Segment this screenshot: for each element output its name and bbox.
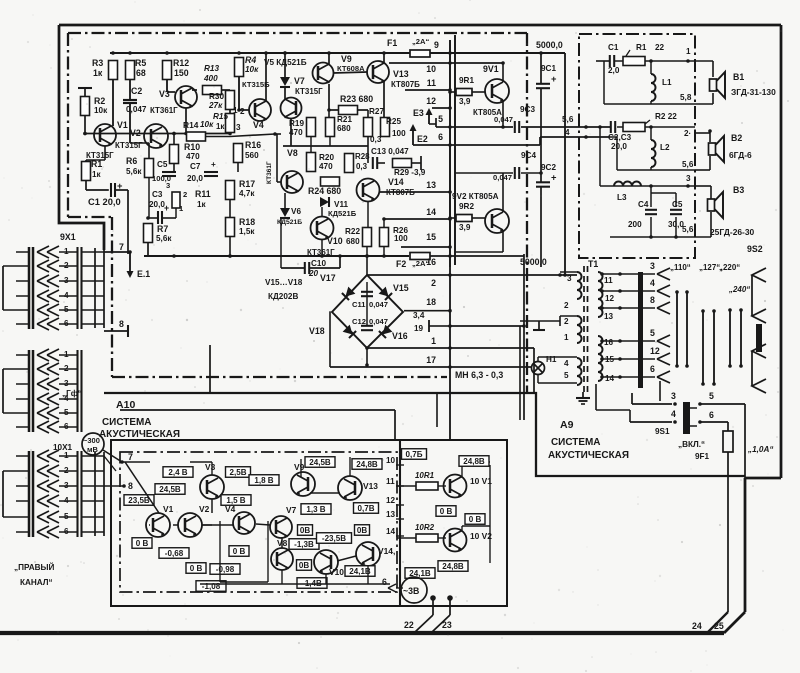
node 22 pin dot <box>430 595 436 601</box>
svg-text:5,8: 5,8 <box>680 93 692 102</box>
svg-text:Т1: Т1 <box>588 259 598 269</box>
svg-text:-0,68: -0,68 <box>165 549 184 558</box>
svg-text:14: 14 <box>386 527 396 536</box>
svg-text:1к: 1к <box>197 200 207 209</box>
svg-text:2: 2 <box>240 107 245 116</box>
wire V4 collector up <box>265 53 267 101</box>
svg-text:В2: В2 <box>731 133 742 143</box>
svg-text:С5: С5 <box>157 160 168 169</box>
resistor R15 <box>229 110 231 114</box>
T1 secondary upper <box>598 272 603 317</box>
svg-text:13: 13 <box>386 510 396 519</box>
node 23 pin dot <box>447 595 453 601</box>
svg-text:В3: В3 <box>733 185 744 195</box>
T1 core dashed <box>583 266 585 392</box>
svg-text:20,0: 20,0 <box>187 174 203 183</box>
svg-text:15: 15 <box>426 232 436 242</box>
svg-text:1: 1 <box>564 333 569 342</box>
svg-text:5,6к: 5,6к <box>126 167 142 176</box>
transistor A10 V14 <box>356 542 380 566</box>
svg-text:10X1: 10X1 <box>53 443 73 452</box>
wire R18 bottom <box>229 237 231 257</box>
svg-text:24,8В: 24,8В <box>463 457 485 466</box>
wire C2 bottom <box>129 103 131 143</box>
wire L2 bottom <box>650 167 652 170</box>
svg-text:23,5В: 23,5В <box>128 496 150 505</box>
voltage box 23,5В at 139 <box>124 495 154 506</box>
transistor V4 <box>249 99 271 121</box>
capacitor 9C4 <box>514 167 516 179</box>
voltage box -23,5В at 334 <box>317 533 352 544</box>
svg-text:5000,0: 5000,0 <box>536 40 563 50</box>
millivolt source circle <box>82 433 104 455</box>
svg-text:3: 3 <box>671 391 676 401</box>
resistor R18 <box>226 218 235 237</box>
wire gap horizontal <box>120 409 395 411</box>
wire x210 down <box>209 345 211 393</box>
wire R6 top <box>148 143 150 159</box>
wire bridge top <box>366 256 368 275</box>
diode V6 <box>280 208 290 217</box>
capacitor C3 symbol <box>157 211 159 224</box>
svg-text:10к: 10к <box>245 65 259 74</box>
voltage box -0,68 at 174 <box>159 548 189 559</box>
wire R12 to V3 <box>166 80 168 93</box>
svg-text:V15: V15 <box>393 283 409 293</box>
svg-text:12: 12 <box>650 346 660 356</box>
wire 10R2 <box>397 537 416 539</box>
svg-text:V16: V16 <box>392 331 408 341</box>
transistor V9 <box>313 63 334 84</box>
fuse F2 <box>410 253 430 260</box>
wire V3 collector <box>185 108 187 134</box>
resistor R4 <box>235 58 244 77</box>
svg-text:12: 12 <box>605 294 615 303</box>
main board dash-dot step v <box>111 217 113 377</box>
voltage box 24,8V r2 <box>438 561 468 572</box>
wire 9V2 emitter <box>502 173 504 212</box>
wire R2 bottom <box>84 116 86 134</box>
wire V10 bottom <box>321 240 323 257</box>
svg-text:„220“: „220“ <box>719 263 740 272</box>
selector jumper 110b <box>686 292 688 366</box>
resistor R16 <box>234 144 243 163</box>
svg-text:100: 100 <box>392 129 406 138</box>
svg-text:R25: R25 <box>386 117 401 126</box>
svg-text:9С2: 9С2 <box>541 163 556 172</box>
capacitor C4 <box>650 186 652 207</box>
svg-text:C2: C2 <box>131 86 142 96</box>
svg-text:V7: V7 <box>294 76 305 86</box>
wire C10 up <box>309 267 340 269</box>
wire R13 right <box>221 89 230 91</box>
svg-text:0,3: 0,3 <box>356 162 368 171</box>
wire row 13 <box>380 191 450 193</box>
svg-text:9: 9 <box>434 40 439 50</box>
wire row 17 right <box>450 366 531 368</box>
wire row 15 <box>401 246 450 248</box>
svg-text:L3: L3 <box>617 193 627 202</box>
svg-text:9V1: 9V1 <box>483 64 499 74</box>
svg-text:1к: 1к <box>92 170 102 179</box>
selector jumper 110a <box>676 292 678 366</box>
wire L1 bottom <box>650 101 652 104</box>
svg-text:6: 6 <box>438 132 443 142</box>
wire top bus right <box>450 52 565 54</box>
wire R17-R18 <box>229 200 231 218</box>
svg-text:С3: С3 <box>152 190 163 199</box>
transistor 10V2 <box>444 529 467 552</box>
antenna bar R2 <box>78 87 92 89</box>
svg-text:V9: V9 <box>341 54 352 64</box>
svg-text:200: 200 <box>628 220 642 229</box>
svg-text:4: 4 <box>671 409 676 419</box>
wire F2 right <box>430 255 450 257</box>
svg-text:10: 10 <box>386 456 396 465</box>
svg-text:2: 2 <box>564 301 569 310</box>
svg-text:V2: V2 <box>199 504 210 514</box>
junction V5 top <box>283 51 287 55</box>
switch 9S1 contact 6 <box>698 420 702 424</box>
wire pin6 to fuse <box>700 421 728 423</box>
svg-text:2: 2 <box>431 278 436 288</box>
svg-text:МН 6,3 - 0,3: МН 6,3 - 0,3 <box>455 370 503 380</box>
svg-text:АКУСТИЧЕСКАЯ: АКУСТИЧЕСКАЯ <box>548 450 629 461</box>
wire bridge mid <box>366 282 368 326</box>
resistor 9R1 <box>456 89 472 96</box>
resistor R1 <box>82 162 91 181</box>
wire V7 emitter <box>290 118 292 146</box>
svg-text:1,8 В: 1,8 В <box>254 476 273 485</box>
T1 primary winding mid <box>577 316 582 343</box>
svg-text:3: 3 <box>236 123 241 132</box>
svg-text:R27: R27 <box>369 107 384 116</box>
svg-text:V1: V1 <box>117 120 128 130</box>
svg-text:ЗГД-31-130: ЗГД-31-130 <box>731 87 776 97</box>
wire R22 top <box>367 202 369 228</box>
wire row3 left <box>599 127 601 186</box>
wire R29 right <box>411 162 421 164</box>
wire x524 down <box>523 254 525 420</box>
svg-text:0В: 0В <box>300 526 310 535</box>
lamp H1 <box>532 362 545 375</box>
wire R15 bottom <box>229 133 231 134</box>
speaker B1 <box>710 79 717 91</box>
speaker B3 wire <box>695 185 711 187</box>
svg-text:+: + <box>551 74 557 84</box>
wire ~3V left <box>396 587 403 589</box>
diode V11 <box>320 197 329 207</box>
speaker B2 <box>709 143 716 155</box>
wire R1 bottom <box>85 181 87 191</box>
svg-text:+: + <box>211 160 216 169</box>
svg-text:12: 12 <box>386 496 396 505</box>
wire row6 to filter <box>450 144 540 146</box>
resistor R3 <box>109 61 118 80</box>
wire A10 V8 loop <box>219 521 221 582</box>
wire A10 V10 down <box>325 574 327 584</box>
svg-text:0 В: 0 В <box>190 564 203 573</box>
wire lamp bottom <box>537 375 539 384</box>
svg-text:R14: R14 <box>183 120 199 130</box>
svg-text:Е2: Е2 <box>417 134 428 144</box>
svg-text:6: 6 <box>382 577 387 587</box>
svg-text:24,8В: 24,8В <box>442 562 464 571</box>
wire R16 bottom <box>237 163 239 173</box>
wire row5 to filter <box>450 126 513 128</box>
svg-text:5: 5 <box>709 391 714 401</box>
wire T1 sec row 3 <box>602 273 655 275</box>
junction R4 top <box>237 51 241 55</box>
wire A10 V9 up <box>300 459 302 477</box>
svg-text:R5: R5 <box>135 58 146 68</box>
svg-text:3: 3 <box>166 181 170 190</box>
svg-text:КТ361Г: КТ361Г <box>150 106 178 115</box>
page outer border right <box>780 25 783 478</box>
wire R21 bottom <box>329 137 331 147</box>
chassis bottom thick line <box>0 631 724 635</box>
svg-text:R2 22: R2 22 <box>655 112 677 121</box>
block A10 inner dash-dot box <box>120 452 397 592</box>
svg-text:~3В: ~3В <box>403 586 419 596</box>
svg-text:1,5 В: 1,5 В <box>226 496 245 505</box>
wire fuse down <box>727 452 729 612</box>
svg-text:R18: R18 <box>239 217 255 227</box>
svg-text:R3: R3 <box>92 58 103 68</box>
wire C4C5 top <box>651 192 676 194</box>
capacitor C1 flt <box>609 55 611 67</box>
wire row2 join <box>616 137 618 170</box>
svg-text:V17: V17 <box>320 273 336 283</box>
wire V4 base <box>240 109 249 111</box>
wire A9 stub <box>436 393 438 427</box>
fuse F1 <box>410 50 430 57</box>
svg-text:С10: С10 <box>311 259 326 268</box>
resistor R14 <box>187 132 206 141</box>
voltage box 0В at 305 <box>298 525 313 536</box>
svg-text:А9: А9 <box>560 419 574 431</box>
svg-text:КТ807Б: КТ807Б <box>391 80 420 89</box>
wire T1 sec row 4 <box>602 290 655 292</box>
svg-text:R12: R12 <box>173 58 189 68</box>
svg-text:R4: R4 <box>245 55 256 65</box>
svg-text:0,047: 0,047 <box>369 317 388 326</box>
wire V9-V13 base link <box>333 72 367 73</box>
T1 sec chevron 6 <box>657 371 670 383</box>
resistor R28 <box>345 154 354 173</box>
svg-text:2,4 В: 2,4 В <box>168 468 187 477</box>
wire row5 filter b <box>521 126 610 128</box>
svg-text:5,6: 5,6 <box>682 160 694 169</box>
svg-text:КТ315Г: КТ315Г <box>295 87 323 96</box>
T1 row dots <box>618 272 622 276</box>
svg-text:9S1: 9S1 <box>655 427 670 436</box>
junction R5 top <box>128 51 132 55</box>
wire 10V1 collector <box>461 470 463 478</box>
svg-text:1,5к: 1,5к <box>239 227 255 236</box>
wire bridge left <box>329 311 331 367</box>
wire selector down a <box>659 381 661 401</box>
diode V15 <box>379 287 392 300</box>
speaker B1 wire <box>695 60 713 62</box>
wire R5 to C2 <box>129 80 131 100</box>
resistor R12 <box>163 61 172 80</box>
connector group B <box>28 350 31 432</box>
diode V5 <box>280 77 290 86</box>
transistor A10 V13 <box>338 476 362 500</box>
svg-text:2: 2 <box>183 190 187 199</box>
resistor R7 <box>144 224 153 243</box>
svg-text:9X1: 9X1 <box>60 232 76 242</box>
svg-text:2,0: 2,0 <box>608 66 620 75</box>
wire A10 10V collectors <box>462 525 490 527</box>
svg-text:V10: V10 <box>327 236 343 246</box>
capacitor 9C2 <box>536 181 550 183</box>
wire R19 bottom <box>310 137 312 154</box>
transistor V7 <box>281 98 302 119</box>
resistor R26 <box>380 228 389 247</box>
svg-text:С5: С5 <box>672 200 683 209</box>
svg-text:V13: V13 <box>393 69 409 79</box>
svg-text:0 В: 0 В <box>136 539 149 548</box>
voltage box 2,4 В at 178 <box>163 467 193 478</box>
wire A10 V2-V4 <box>202 524 234 526</box>
svg-text:L2: L2 <box>660 143 670 152</box>
svg-text:24,8В: 24,8В <box>356 460 378 469</box>
voltage box 0,7V r <box>402 449 427 460</box>
svg-text:24,5В: 24,5В <box>309 458 331 467</box>
resistor R2 flt <box>623 123 645 132</box>
trimmer R11 box <box>172 192 180 208</box>
wire 9R2 <box>450 217 456 219</box>
voltage box 24,1В at 360 <box>345 566 375 577</box>
wire 9C1-9C2 <box>540 88 542 182</box>
wire A10 V10 V14 <box>337 556 356 561</box>
svg-text:13: 13 <box>426 180 436 190</box>
wire 9V2 collector <box>502 230 504 252</box>
wire V1 emitter <box>104 146 106 160</box>
svg-text:5: 5 <box>650 328 655 338</box>
scan speckle <box>258 101 260 103</box>
svg-text:„1,0А“: „1,0А“ <box>747 445 774 454</box>
top supply bus wire <box>110 52 450 54</box>
svg-text:R21: R21 <box>337 115 352 124</box>
transistor 9V2 <box>485 209 509 233</box>
svg-text:V3: V3 <box>159 89 170 99</box>
voltage box 24,5В at 320 <box>305 457 335 468</box>
svg-text:20,0: 20,0 <box>611 142 627 151</box>
svg-text:R10: R10 <box>184 142 200 152</box>
capacitor C2C3 flt <box>610 121 612 133</box>
voltage box 1,5 В at 236 <box>221 495 251 506</box>
block A10 divider <box>399 440 401 606</box>
svg-text:V14: V14 <box>388 177 404 187</box>
wire T1 sec row 12 <box>602 358 655 360</box>
svg-text:КТ361Г: КТ361Г <box>266 161 273 184</box>
wire A10 V13 up <box>349 457 351 476</box>
svg-text:СИСТЕМА: СИСТЕМА <box>551 437 600 448</box>
main board dash-dot step h <box>68 216 112 218</box>
resistor R25 <box>381 118 390 137</box>
wire down to T1 <box>564 53 566 275</box>
wire row 18 <box>404 310 450 312</box>
transistor A10 V9 <box>291 472 315 496</box>
wire T1 primary mid feed <box>520 320 560 322</box>
wire 23 tick <box>449 598 451 615</box>
wire row 2 right <box>450 274 577 276</box>
svg-text:-0,98: -0,98 <box>216 565 235 574</box>
svg-text:С12: С12 <box>352 317 366 326</box>
wire 9V1 collector <box>502 63 504 82</box>
T1 sec chevron 5 <box>657 335 670 347</box>
wire V10 top <box>321 207 323 217</box>
bridge V15-V18 outline <box>332 275 403 348</box>
wire mains down diagonal 24 <box>707 612 728 633</box>
main board dash-dot left <box>67 33 69 217</box>
wire 9R1 <box>450 91 456 93</box>
svg-text:4,7к: 4,7к <box>239 189 255 198</box>
wire R26 bottom <box>383 247 385 257</box>
transistor A10 V4 <box>233 512 255 534</box>
wire row 16 <box>450 255 524 257</box>
capacitor C10 <box>304 262 306 274</box>
svg-text:17: 17 <box>426 355 436 365</box>
svg-text:68: 68 <box>136 68 146 78</box>
svg-text:23: 23 <box>442 620 452 630</box>
svg-text:560: 560 <box>245 151 259 160</box>
inductor L1 <box>650 61 652 74</box>
transistor A10 V1 <box>146 513 170 537</box>
wire row 12 <box>432 107 450 109</box>
speaker filter box dash-dot <box>579 34 695 258</box>
svg-text:КД521Б: КД521Б <box>328 209 357 218</box>
resistor R6 <box>145 159 154 178</box>
svg-text:11: 11 <box>386 477 395 486</box>
svg-text:9С4: 9С4 <box>521 151 536 160</box>
wire T1 sec row 5 <box>602 340 655 342</box>
wire R14 right <box>206 136 231 138</box>
svg-text:1: 1 <box>686 47 691 56</box>
voltage box 0 В at 196 <box>186 563 206 574</box>
svg-text:КАНАЛ“: КАНАЛ“ <box>20 578 53 587</box>
wire row1 left v <box>603 61 605 104</box>
svg-text:7: 7 <box>128 452 133 462</box>
svg-text:14: 14 <box>605 374 615 383</box>
svg-text:20,0: 20,0 <box>149 200 165 209</box>
svg-text:27к: 27к <box>208 101 223 110</box>
connector 9X1 group <box>28 247 31 329</box>
switch 9S1 contact 4 <box>673 420 677 424</box>
wire R1 right <box>614 60 623 62</box>
wire row 17 <box>330 366 450 368</box>
svg-text:19: 19 <box>414 324 424 333</box>
resistor R17 <box>226 181 235 200</box>
wire V8 base feed <box>276 134 278 182</box>
svg-text:9С3: 9С3 <box>520 105 535 114</box>
svg-text:680: 680 <box>337 124 351 133</box>
node E3 arrow <box>428 112 430 124</box>
wire row 19 <box>436 325 450 327</box>
speaker B3 <box>708 199 715 211</box>
svg-text:470: 470 <box>186 152 200 161</box>
resistor R23 <box>339 106 358 115</box>
wire R23 left <box>329 109 339 111</box>
speaker B2 wire <box>695 132 710 134</box>
svg-text:0,7В: 0,7В <box>357 504 374 513</box>
svg-text:R16: R16 <box>245 140 261 150</box>
transistor 9V1 <box>485 79 509 103</box>
svg-text:1к: 1к <box>216 122 224 131</box>
